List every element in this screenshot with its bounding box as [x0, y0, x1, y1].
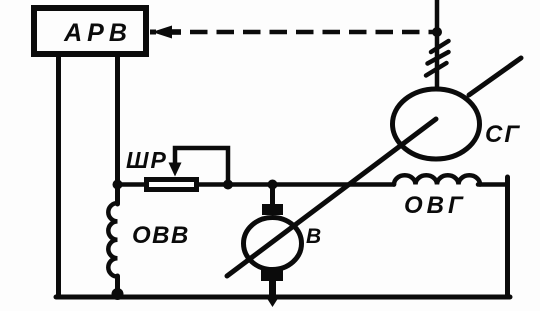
svg-text:ОВГ: ОВГ: [404, 192, 467, 219]
svg-text:ШР: ШР: [126, 147, 168, 173]
svg-text:ОВВ: ОВВ: [132, 222, 190, 249]
svg-text:АРВ: АРВ: [63, 19, 132, 47]
svg-text:СГ: СГ: [485, 121, 521, 148]
svg-text:В: В: [306, 225, 321, 248]
